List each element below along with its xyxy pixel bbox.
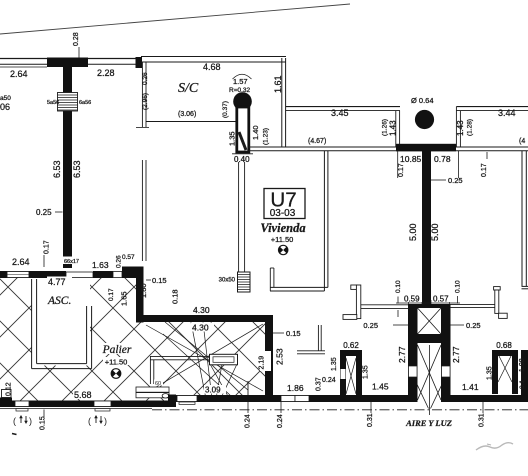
wall bottom-left solid (0, 401, 172, 408)
airshaft top band (417, 304, 442, 308)
svg-text:1.43: 1.43 (389, 120, 398, 136)
door sill 66x17 (66, 272, 93, 278)
window bottom-left 2 (94, 401, 111, 407)
svg-text:1.61: 1.61 (273, 75, 283, 93)
svg-text:1.65: 1.65 (120, 291, 129, 306)
svg-text:1.43: 1.43 (456, 120, 465, 136)
window bottom-left 1 (15, 401, 29, 407)
svg-text:): ) (29, 416, 32, 426)
svg-text:5.00: 5.00 (430, 223, 440, 241)
svg-text:66x17: 66x17 (64, 259, 79, 265)
flue column below circle (237, 107, 249, 152)
svg-text:0.15: 0.15 (152, 276, 167, 285)
dim tick 0.28 (78, 47, 80, 58)
svg-text:Vivienda: Vivienda (260, 221, 305, 235)
svg-text:0.17: 0.17 (481, 163, 488, 177)
svg-text:2.53: 2.53 (275, 348, 285, 365)
svg-text:0.17: 0.17 (108, 288, 115, 301)
closet 0.62 cross (346, 358, 356, 394)
svg-text:1.35: 1.35 (228, 131, 237, 146)
svg-text:0.59: 0.59 (404, 295, 420, 304)
svg-text:0.68: 0.68 (496, 341, 512, 350)
airshaft upper box cross (418, 308, 442, 334)
svg-text:0.17: 0.17 (44, 240, 51, 254)
svg-text:0.62: 0.62 (343, 341, 359, 350)
wall interior left double line lower (141, 160, 143, 261)
svg-text:0.24: 0.24 (277, 414, 284, 428)
wall corner block (122, 267, 143, 279)
label 2.19 rotated stairs (259, 351, 272, 371)
svg-text:(3.06): (3.06) (178, 111, 196, 118)
wall stairs top solid (136, 315, 273, 322)
label 60 small (154, 380, 163, 388)
svg-text:0.78: 0.78 (434, 154, 451, 164)
window bottom boxes (177, 396, 197, 402)
svg-text:+11.50: +11.50 (105, 358, 128, 367)
wall S/C left double line upper (141, 62, 143, 127)
label 4.77 (47, 277, 72, 288)
wall top-left double line (0, 58, 141, 60)
duct double line center (238, 162, 240, 272)
label 0.57 (432, 294, 451, 304)
label 3.09 (204, 385, 226, 395)
label 5.68 (73, 390, 96, 400)
svg-text:1.80: 1.80 (139, 283, 148, 298)
svg-text:0.12: 0.12 (6, 382, 13, 396)
wall U7 room bottom double line (270, 286, 328, 288)
svg-text:03-03: 03-03 (270, 208, 296, 219)
faint smudge bottom right (476, 443, 513, 450)
svg-text:4.30: 4.30 (192, 323, 209, 333)
wall main horizontal thin (left part) (249, 146, 396, 148)
svg-text:3.45: 3.45 (331, 108, 349, 118)
svg-text:1.86: 1.86 (287, 383, 304, 393)
svg-text:0.57: 0.57 (122, 254, 135, 261)
ASC shaft interior white (32, 278, 90, 366)
svg-text:5a56: 5a56 (47, 100, 59, 106)
label 4.30 above wall (192, 305, 215, 315)
svg-text:0.28: 0.28 (73, 32, 80, 46)
thin wall right of shaft (450, 303, 495, 305)
wall step join (168, 395, 176, 408)
balustrade double line (150, 355, 209, 357)
svg-text:2.77: 2.77 (451, 346, 461, 363)
wall S/C top double line (141, 56, 286, 58)
svg-text:60: 60 (155, 381, 161, 387)
wall bottom-right solid (172, 395, 408, 402)
svg-text:3.09: 3.09 (205, 386, 221, 395)
svg-text:(2.96): (2.96) (142, 93, 149, 110)
wall S/C right double line (281, 58, 283, 147)
tick marks below (43, 410, 45, 418)
wall U7 room right double line (323, 151, 325, 291)
svg-text:1.35: 1.35 (331, 357, 338, 371)
small white pier (113, 272, 122, 278)
wall central vertical solid (422, 151, 431, 306)
wall S/C bottom thin line (146, 121, 236, 123)
svg-text:ASC.: ASC. (47, 295, 71, 307)
svg-text:2.77: 2.77 (397, 346, 407, 363)
airshaft right wall (441, 304, 451, 402)
wall vertical palier right (136, 267, 144, 323)
wall stairs right solid (265, 315, 273, 395)
svg-text:0.24: 0.24 (245, 414, 252, 428)
svg-text:S/C: S/C (178, 81, 199, 96)
svg-text:06: 06 (0, 102, 10, 112)
dim tick 0.15 room (273, 332, 284, 334)
wall main horizontal thin (right part) (456, 146, 528, 148)
svg-text:a50: a50 (0, 95, 11, 102)
arc over 1.57 (233, 74, 252, 79)
wall upper-middle double line (286, 106, 400, 108)
stub line 0.17 right (457, 151, 459, 178)
svg-text:0.24: 0.24 (322, 377, 336, 384)
benchmark icon vivienda (279, 245, 288, 254)
svg-text:0.31: 0.31 (479, 413, 486, 427)
svg-text:(1.23): (1.23) (263, 128, 270, 145)
airshaft dim line 0.59/0.57 (396, 302, 460, 304)
svg-text:5.00: 5.00 (408, 223, 418, 241)
wall right edge double line (521, 151, 523, 286)
diagonal property line (0, 4, 350, 34)
dim tick 0.25 central wall (431, 179, 446, 181)
bayonet wall outline left (351, 285, 357, 289)
svg-text:Palier: Palier (102, 344, 132, 356)
hook wall left end (269, 268, 271, 291)
svg-text:1.35: 1.35 (363, 365, 370, 379)
svg-text:(4: (4 (519, 138, 525, 145)
airshaft lower box cross (418, 345, 442, 400)
small dash mark bottom-left (12, 434, 17, 435)
svg-text:3.44: 3.44 (498, 108, 516, 118)
svg-text:1.41: 1.41 (462, 382, 479, 392)
svg-text:0.1: 0.1 (519, 380, 526, 389)
svg-text:(4.67): (4.67) (308, 138, 326, 145)
wall main horizontal solid (396, 144, 456, 152)
svg-text:1.45: 1.45 (372, 382, 389, 392)
svg-text:6.53: 6.53 (72, 160, 82, 178)
dim line 0.40 under column (232, 153, 253, 155)
U7 box (264, 189, 305, 220)
closet 0.68 walls (492, 350, 518, 356)
duct 30x50 hatched block (238, 272, 251, 292)
label 66x17 (63, 257, 83, 266)
svg-text:30x50: 30x50 (219, 278, 236, 284)
stair center landing rect (210, 354, 238, 365)
svg-text:0.26: 0.26 (142, 72, 149, 85)
closet 0.62 walls (340, 350, 362, 356)
thin wall left of shaft (361, 304, 408, 306)
axis dash-dot line (152, 409, 528, 411)
line under bottom-left wall (0, 408, 152, 410)
door leaf boxes bottom-left of stairs (136, 387, 169, 392)
lintel 5a56/6a56 hatched block (58, 93, 78, 112)
label +11.50 palier (103, 357, 130, 367)
svg-text:+11.50: +11.50 (271, 235, 294, 244)
wall palier top: left stub (0, 271, 7, 278)
svg-text:0.15: 0.15 (40, 416, 47, 430)
window in top palier wall (7, 272, 29, 278)
dim ticks 0.25 shaft (393, 324, 408, 326)
svg-text:2.28: 2.28 (97, 68, 115, 78)
svg-text:(: ( (13, 416, 16, 426)
svg-text:(0.37): (0.37) (222, 101, 229, 118)
svg-text:6a56: 6a56 (79, 100, 91, 106)
benchmark icon palier (111, 369, 121, 379)
closet 0.68 cross (498, 354, 512, 382)
flue circle top-right (415, 110, 434, 129)
svg-text:0.37: 0.37 (316, 377, 323, 391)
svg-text:0.40: 0.40 (234, 155, 250, 164)
dim tick 0.25 left wall (55, 211, 63, 213)
svg-text:10.85: 10.85 (400, 154, 422, 164)
svg-text:1.40: 1.40 (251, 125, 260, 140)
stair flight lines (146, 322, 263, 399)
svg-text:1.57: 1.57 (233, 77, 248, 86)
svg-text:0.25: 0.25 (466, 321, 481, 330)
svg-text:2.64: 2.64 (12, 257, 30, 267)
svg-text:(1.26): (1.26) (382, 119, 389, 136)
svg-text:2.19: 2.19 (259, 356, 266, 370)
svg-text:6.53: 6.53 (52, 160, 62, 178)
wall junction block at S/C corner (136, 57, 143, 68)
label arrows left (13, 415, 32, 426)
svg-text:Ø 0.64: Ø 0.64 (411, 96, 434, 105)
svg-text:4.77: 4.77 (48, 277, 66, 287)
wall palier top solid B (93, 271, 113, 278)
svg-text:2.64: 2.64 (10, 69, 28, 79)
hatch palier lattice (0, 277, 266, 401)
wall top-right corner double line (456, 106, 528, 108)
svg-text:): ) (104, 416, 107, 426)
svg-text:0.18: 0.18 (171, 289, 180, 304)
dim tick 0.17 left (43, 255, 45, 267)
label 0.59 (403, 294, 422, 304)
airshaft mid band (417, 334, 442, 343)
svg-text:1.08: 1.08 (519, 358, 526, 372)
svg-text:0.10: 0.10 (395, 280, 402, 293)
svg-text:0.15: 0.15 (286, 329, 301, 338)
dim tick 0.15 interior (146, 279, 151, 281)
wall block top-left solid (47, 58, 88, 68)
T-partition wall interior (297, 350, 325, 352)
flue circle S/C (233, 92, 252, 111)
svg-text:4.68: 4.68 (203, 62, 221, 72)
label Palier (100, 343, 134, 356)
svg-text:0.25: 0.25 (363, 321, 378, 330)
svg-text:1.35: 1.35 (487, 366, 494, 380)
airshaft left wall (408, 304, 418, 402)
hook T-shape right (494, 287, 501, 290)
pointer lines to AIRE Y LUZ (414, 378, 429, 409)
label ASC. (47, 294, 78, 307)
svg-text:0.17: 0.17 (398, 163, 405, 177)
wall far right solid (521, 350, 528, 395)
svg-text:5.68: 5.68 (74, 390, 92, 400)
wall palier top solid A (29, 271, 66, 278)
ASC shaft U walls (31, 279, 33, 369)
svg-text:1.63: 1.63 (92, 260, 109, 270)
label arrows mid (88, 415, 107, 426)
svg-text:0.25: 0.25 (448, 176, 463, 185)
svg-text:0.10: 0.10 (455, 280, 462, 293)
label 4.30 in stairs (191, 323, 214, 333)
svg-text:R=0.32: R=0.32 (229, 87, 251, 94)
svg-text:AIRE Y LUZ: AIRE Y LUZ (405, 418, 452, 428)
svg-text:0.25: 0.25 (36, 208, 52, 217)
svg-text:4.30: 4.30 (193, 305, 210, 315)
svg-text:(1.28): (1.28) (467, 119, 474, 136)
svg-text:(: ( (88, 416, 91, 426)
stub line 0.17 left (397, 151, 399, 178)
svg-text:0.31: 0.31 (367, 413, 374, 427)
svg-text:0.57: 0.57 (433, 295, 449, 304)
wall vertical left (6.53) (63, 67, 72, 268)
